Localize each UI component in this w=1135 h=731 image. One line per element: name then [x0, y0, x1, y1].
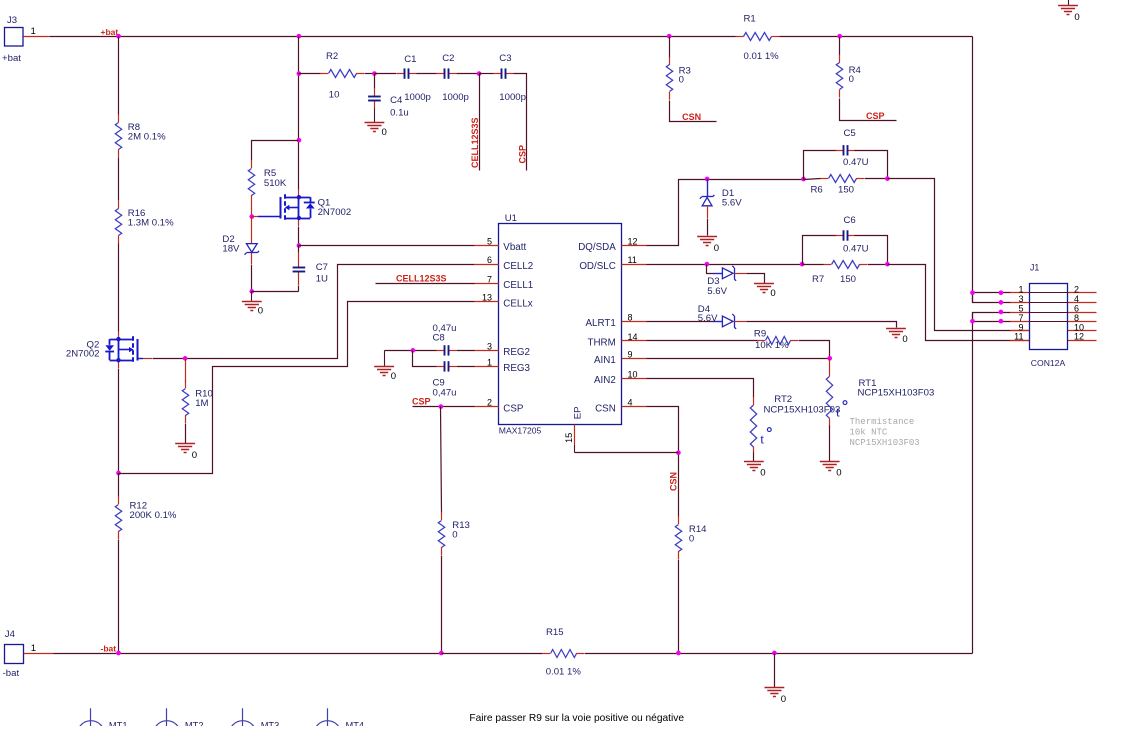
label D3	[707, 276, 719, 287]
junction R2 row	[297, 71, 302, 76]
svg-text:1: 1	[1018, 284, 1023, 294]
label 510K	[264, 178, 287, 189]
pin number 1 of J4	[31, 643, 36, 654]
resistor R6	[0, 0, 1, 1]
junction R5 branch	[297, 138, 302, 143]
label NCP15XH103F03 of RT1	[858, 388, 935, 399]
resistor R3 body	[666, 57, 672, 100]
ground top right	[1068, 0, 1070, 5]
capacitor C8	[0, 0, 1, 1]
pin 5 Vbatt of U1	[474, 245, 499, 247]
label R4	[849, 65, 862, 76]
svg-text:4: 4	[628, 398, 633, 408]
svg-text:t: t	[760, 433, 764, 448]
label RT2	[774, 394, 792, 405]
label R2	[326, 51, 338, 62]
wire inside J1 row 4	[1029, 321, 1067, 323]
label 0 of R3	[679, 74, 684, 85]
resistor R15	[0, 0, 1, 1]
label C6	[844, 215, 856, 226]
capacitor C5 body	[835, 145, 855, 155]
capacitor C9	[0, 0, 1, 1]
wire R9 to AIN1 junction	[799, 341, 830, 359]
svg-text:11: 11	[1014, 332, 1023, 342]
wire junction to R2	[299, 73, 321, 75]
label D1	[722, 188, 734, 199]
svg-text:18V: 18V	[222, 244, 240, 255]
resistor R2	[0, 0, 1, 1]
wire inside J1 row 1	[1029, 292, 1067, 294]
capacitor C8 body	[436, 345, 456, 355]
svg-text:R15: R15	[546, 627, 564, 638]
junction J1 left row 3	[999, 310, 1004, 315]
resistor R4 body	[836, 55, 842, 98]
label C5	[844, 128, 856, 139]
pin 5 of J1	[1010, 312, 1029, 314]
svg-text:5.6V: 5.6V	[707, 286, 727, 297]
diode D3 5.6V zener	[713, 273, 722, 275]
resistor R10 body	[182, 380, 188, 423]
svg-text:150: 150	[838, 185, 854, 196]
pin number 1 of J3	[31, 26, 36, 37]
net label CSP top	[866, 111, 885, 121]
diode D2 18V zener	[0, 0, 1, 1]
svg-text:0: 0	[760, 468, 765, 479]
wire right rail lower	[972, 313, 974, 654]
wire R7 left	[803, 264, 824, 266]
svg-text:2N7002: 2N7002	[318, 207, 352, 218]
label 0 of R13	[452, 530, 457, 541]
junction right rail row1	[970, 290, 975, 295]
svg-text:0: 0	[902, 334, 907, 345]
wire RT1 to ground	[829, 426, 831, 462]
svg-text:+bat: +bat	[2, 53, 21, 64]
svg-text:0: 0	[391, 371, 396, 382]
svg-text:1000p: 1000p	[499, 92, 526, 103]
junction EP / CSN column	[676, 450, 681, 455]
wire R6 row to J1 row9	[888, 179, 1011, 331]
svg-text:R1: R1	[744, 13, 756, 24]
label NCP15XH103F03 of RT2	[764, 405, 841, 416]
pin 4 CSN of U1	[622, 406, 647, 408]
svg-text:ALRT1: ALRT1	[585, 318, 615, 329]
svg-text:J3: J3	[7, 15, 17, 26]
pin source of Q1 bottom	[298, 218, 300, 226]
net label +bat	[101, 27, 119, 37]
svg-text:200K 0.1%: 200K 0.1%	[130, 510, 177, 521]
junction Vbatt / C7	[297, 243, 302, 248]
pin name ALRT1 of U1	[585, 318, 615, 329]
label R12	[130, 500, 148, 511]
svg-text:1: 1	[31, 643, 36, 654]
resistor R12 body	[115, 496, 121, 539]
junction C8/C9 left	[411, 348, 416, 353]
net label CELL12S3S vertical	[470, 117, 480, 168]
svg-text:C5: C5	[844, 128, 856, 139]
ground under D1	[697, 237, 719, 254]
resistor R13 body	[438, 512, 444, 555]
pin name REG3 of U1	[503, 363, 530, 374]
junction D2 / C7 ground wire	[249, 289, 254, 294]
resistor R2 body	[320, 70, 364, 78]
pin name Vbatt of U1	[503, 242, 526, 253]
svg-text:9: 9	[628, 349, 633, 359]
wire D2 to ground wire	[251, 265, 253, 292]
junction bottom rail / R12	[116, 651, 121, 656]
wire C6 left riser	[803, 236, 837, 265]
wire R3 to CSN stub	[670, 101, 717, 122]
mounting hole MT4	[314, 708, 364, 731]
net label CSP at pin2	[412, 397, 431, 407]
capacitor C4	[0, 0, 1, 1]
pin 7 of J1	[1010, 321, 1029, 323]
pin EP of U1	[574, 425, 576, 453]
junction CSP / R13	[439, 404, 444, 409]
label 1000p of C2	[442, 92, 469, 103]
capacitor C2 body	[436, 68, 456, 78]
label U1	[505, 213, 517, 224]
resistor R14 body	[675, 516, 681, 559]
svg-text:Vbatt: Vbatt	[503, 242, 526, 253]
svg-text:J4: J4	[5, 629, 16, 640]
svg-text:0: 0	[382, 127, 387, 138]
pin number 8 of U1	[628, 312, 633, 322]
svg-text:0: 0	[689, 534, 694, 545]
wire D3 to ground	[747, 274, 765, 284]
pin number 4 of U1	[628, 398, 633, 408]
svg-text:1.3M 0.1%: 1.3M 0.1%	[128, 218, 174, 229]
capacitor C9 body	[436, 361, 456, 371]
wire CSP stub to pin2	[413, 406, 475, 408]
pin 6 CELL2 of U1	[474, 264, 499, 266]
transistor Q2 2N7002	[105, 336, 137, 363]
ground for C8 C9	[374, 350, 396, 382]
label 0.01 1% of R15	[546, 667, 582, 678]
svg-text:14: 14	[628, 332, 638, 342]
label 0,47u of C9	[433, 387, 457, 398]
label C7	[316, 262, 328, 273]
pin number 15 of U1	[564, 433, 574, 443]
pin D3 cathode	[734, 273, 746, 275]
wire C6 right riser	[855, 236, 888, 265]
pin 2 of J1	[1068, 292, 1097, 294]
svg-text:0.01 1%: 0.01 1%	[546, 667, 582, 678]
junction R5 / D2 / Q1 gate	[249, 214, 254, 219]
svg-text:CSP: CSP	[412, 397, 431, 407]
label 0 of R14	[689, 534, 694, 545]
wire J3 junction down to R8	[118, 37, 120, 115]
svg-text:0: 0	[781, 694, 786, 705]
resistor R7 body	[823, 261, 867, 269]
junction J1 left row 1	[999, 290, 1004, 295]
diode D2 body	[245, 244, 260, 255]
capacitor C2	[0, 0, 1, 1]
pin 3 REG2 of U1	[474, 350, 499, 352]
label C8	[433, 333, 445, 344]
svg-text:OD/SLC: OD/SLC	[579, 261, 615, 272]
pin 9 AIN1 of U1	[622, 358, 647, 360]
mounting hole MT1	[77, 708, 127, 731]
svg-text:+bat: +bat	[101, 27, 119, 37]
pin number 11 of U1	[628, 255, 637, 265]
resistor R9 body	[757, 337, 798, 345]
label 150 of R7	[840, 274, 856, 285]
pin 8 ALRT1 of U1	[622, 321, 647, 323]
pin RT1 top	[829, 358, 831, 376]
pin number 3 of J1	[1018, 294, 1023, 304]
capacitor C6 body	[835, 230, 855, 240]
comment 10k NTC	[850, 428, 888, 438]
pin 8 of J1	[1068, 321, 1097, 323]
pin drain of Q2	[118, 331, 120, 339]
svg-text:CSN: CSN	[595, 403, 616, 414]
svg-text:CELL2: CELL2	[503, 261, 533, 272]
svg-text:MT4: MT4	[346, 721, 365, 726]
junction +bat / R2 column	[297, 34, 302, 39]
ground under RT1	[820, 462, 842, 479]
net label CELL12S3S horizontal	[396, 273, 447, 283]
pin drain of Q1 top	[298, 189, 300, 197]
connector J4	[3, 629, 24, 679]
svg-text:10: 10	[329, 90, 340, 101]
junction J1 left row 4	[999, 319, 1004, 324]
connector J1 CON12A box	[1030, 284, 1068, 350]
pin 11 of J1	[1010, 340, 1029, 342]
wire Vbatt to pin5	[299, 245, 475, 247]
resistor R8	[0, 0, 1, 1]
net label CSN top	[682, 112, 701, 122]
pin D2 bottom	[251, 253, 253, 264]
wire R12 to bottom rail	[118, 540, 120, 654]
svg-text:0,47u: 0,47u	[433, 387, 457, 398]
pin 2 CSP of U1	[474, 406, 499, 408]
diode D1 5.6V zener	[707, 179, 709, 196]
svg-text:15: 15	[564, 433, 574, 443]
wire C9 to REG3 pin	[457, 366, 475, 368]
junction CELL12S3S stub	[477, 71, 482, 76]
svg-text:5.6V: 5.6V	[698, 313, 718, 324]
capacitor C6	[0, 0, 1, 1]
junction R7/C6 right	[885, 262, 890, 267]
pin number 12 of U1	[628, 236, 638, 246]
label 18V	[222, 244, 240, 255]
junction +bat / R3	[667, 34, 672, 39]
wire Q1 source to Vbatt junction	[298, 227, 300, 246]
svg-text:0: 0	[714, 243, 719, 254]
wire C1 to C2	[417, 73, 437, 75]
svg-text:2: 2	[1074, 284, 1079, 294]
label 1000p of C1	[404, 92, 431, 103]
svg-text:THRM: THRM	[588, 338, 616, 349]
pin R5 bottom long	[251, 203, 253, 217]
svg-text:MAX17205: MAX17205	[499, 426, 542, 436]
pin number 9 of J1	[1018, 323, 1023, 333]
wire C2 to CELL12S3S junction	[457, 73, 480, 75]
pin C7 bottom red	[298, 279, 300, 285]
svg-text:8: 8	[628, 312, 633, 322]
label 10 of R2	[329, 90, 340, 101]
op-amp U1 MAX17205 box	[499, 224, 622, 425]
pin 11 OD/SLC of U1	[622, 264, 647, 266]
wire C8 left to ground	[385, 350, 437, 352]
pin name DQ/SDA of U1	[578, 242, 616, 253]
pin 6 of J1	[1068, 312, 1097, 314]
svg-text:0.47U: 0.47U	[843, 157, 869, 168]
note Faire passer R9	[469, 713, 684, 724]
label 5.6V of D1	[722, 198, 742, 209]
ground top right symbol	[1058, 6, 1080, 23]
label R9	[754, 329, 766, 340]
svg-text:0: 0	[258, 306, 263, 317]
pin 10 AIN2 of U1	[622, 378, 647, 380]
label 150 of R6	[838, 185, 854, 196]
label 0.1u of C4	[390, 107, 409, 118]
svg-text:3: 3	[1018, 294, 1023, 304]
pin number 12 of J1	[1074, 332, 1084, 342]
net label -bat	[101, 644, 117, 654]
thermistor RT2 body	[750, 405, 771, 448]
label D4	[698, 304, 711, 315]
svg-text:12: 12	[628, 236, 638, 246]
wire C8 to REG2 pin	[457, 350, 475, 352]
label R3	[679, 66, 691, 77]
junction bottom rail / R13	[439, 651, 444, 656]
resistor R5	[0, 0, 1, 1]
label 0,47u of C8	[433, 323, 457, 334]
wire R5 branch	[252, 141, 299, 161]
svg-text:10K 1%: 10K 1%	[755, 340, 789, 351]
pin D1 anode	[707, 206, 709, 218]
wire C7 top	[298, 246, 300, 253]
pin name THRM of U1	[588, 338, 616, 349]
wire bottom rail left	[54, 653, 442, 655]
pin 9 of J1	[1010, 330, 1029, 332]
label Q2	[86, 340, 99, 351]
pin 1 of J3	[23, 36, 49, 38]
resistor R9	[0, 0, 1, 1]
svg-text:7: 7	[487, 274, 492, 284]
wire R16 to Q2	[118, 244, 120, 332]
diode D1 body	[700, 195, 715, 206]
svg-text:RT2: RT2	[774, 394, 792, 405]
svg-text:13: 13	[482, 293, 492, 303]
resistor R1 body	[736, 33, 780, 41]
pin 12 DQ/SDA of U1	[622, 245, 647, 247]
label J1	[1030, 263, 1039, 273]
ground bottom rail	[765, 688, 787, 706]
svg-text:0: 0	[452, 530, 457, 541]
capacitor C7	[0, 0, 1, 1]
wire R2 row riser	[298, 37, 300, 190]
svg-text:AIN1: AIN1	[594, 355, 616, 366]
pin number 3 of U1	[487, 341, 492, 351]
svg-text:10k NTC: 10k NTC	[850, 428, 888, 438]
label 200K 0.1%	[130, 510, 177, 521]
ground under R10	[175, 444, 197, 462]
svg-text:12: 12	[1074, 332, 1084, 342]
wire C9 left riser	[413, 351, 437, 367]
wire +bat top rail right	[780, 36, 973, 38]
wire right rail upper	[972, 37, 974, 303]
svg-text:3: 3	[487, 341, 492, 351]
svg-text:C7: C7	[316, 262, 328, 273]
resistor R5 body	[248, 160, 254, 203]
label R15	[546, 627, 564, 638]
pin source of Q2 pre	[118, 360, 120, 368]
wire R14 to bottom rail	[678, 560, 680, 654]
resistor R16 body	[115, 201, 121, 244]
pin number 10 of U1	[628, 369, 638, 379]
wire C7 bottom	[298, 286, 300, 292]
wire inside J1 row 3	[1029, 312, 1067, 314]
diode D3 body	[722, 266, 736, 281]
pin number 7 of U1	[487, 274, 492, 284]
svg-text:0: 0	[836, 468, 841, 479]
junction J1 left row 2	[999, 300, 1004, 305]
wire junction to C3	[480, 73, 494, 75]
pin number 1 of U1	[487, 357, 492, 367]
resistor R6 body	[820, 175, 864, 183]
label R16	[128, 208, 146, 219]
label R6	[811, 185, 823, 196]
svg-text:CELLx: CELLx	[503, 298, 533, 309]
label R1	[744, 13, 756, 24]
label 0 of R4	[849, 74, 854, 85]
pin number 14 of U1	[628, 332, 638, 342]
svg-text:0: 0	[849, 74, 854, 85]
label 0.47U of C5	[843, 157, 869, 168]
capacitor C4 body	[368, 88, 381, 108]
mounting hole MT3	[229, 708, 279, 731]
svg-text:0: 0	[192, 450, 197, 461]
svg-text:C4: C4	[390, 95, 403, 106]
pin number 10 of J1	[1074, 323, 1084, 333]
wire R4 to CSP stub	[840, 99, 897, 121]
pin name CELL1 of U1	[503, 280, 533, 291]
pin 1 of J1	[1010, 292, 1029, 294]
svg-text:R6: R6	[811, 185, 823, 196]
svg-text:4: 4	[1074, 294, 1079, 304]
svg-text:1000p: 1000p	[404, 92, 431, 103]
comment Thermistance	[850, 417, 915, 427]
ground under D2	[242, 291, 263, 316]
svg-text:2M 0.1%: 2M 0.1%	[128, 132, 166, 143]
wire D3 branch	[707, 265, 714, 274]
pin 13 CELLx of U1	[474, 301, 499, 303]
wire J1 row7	[973, 321, 1011, 323]
thermistor RT2	[0, 0, 1, 1]
junction bottom rail / ground	[772, 651, 777, 656]
pin 1 of J4	[24, 653, 54, 655]
svg-text:0: 0	[770, 288, 775, 299]
label CON12A	[1031, 358, 1066, 368]
label R7	[812, 274, 824, 285]
capacitor C3 body	[494, 68, 514, 78]
svg-text:1U: 1U	[316, 274, 328, 285]
pin number 9 of U1	[628, 349, 633, 359]
svg-text:CON12A: CON12A	[1031, 358, 1066, 368]
svg-text:CSP: CSP	[503, 403, 524, 414]
label 1U	[316, 274, 328, 285]
wire RT2 to ground	[753, 453, 755, 462]
junction R6/C5 right	[885, 176, 890, 181]
junction gate wire / R10	[183, 356, 188, 361]
pin name REG2 of U1	[503, 347, 530, 358]
pin RT1 bottom	[829, 418, 831, 426]
svg-text:DQ/SDA: DQ/SDA	[578, 242, 616, 253]
pin 10 of J1	[1068, 330, 1097, 332]
ground under C4	[365, 108, 387, 138]
